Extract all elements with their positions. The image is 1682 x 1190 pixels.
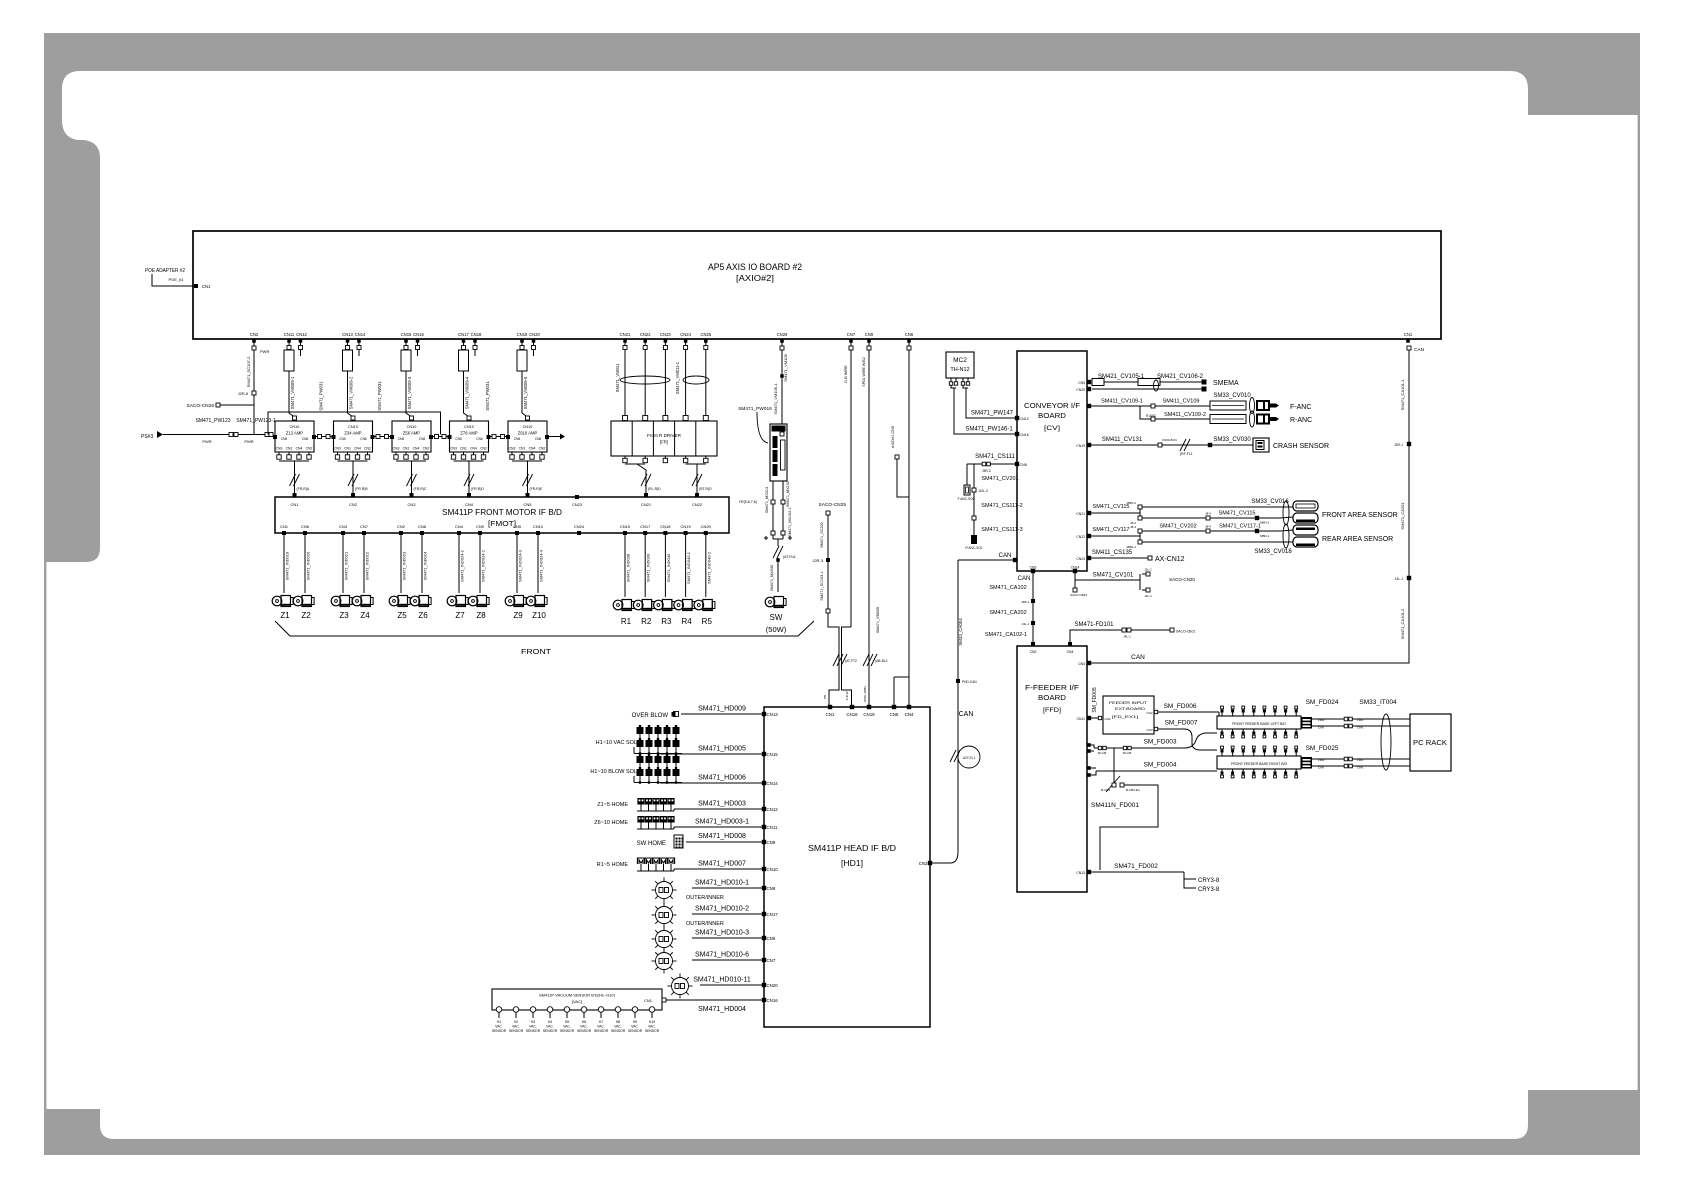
svg-text:CN17: CN17 [767, 912, 779, 917]
svg-text:Z2: Z2 [301, 611, 311, 620]
svg-text:CN4: CN4 [296, 447, 303, 451]
svg-text:BOARD: BOARD [1038, 413, 1066, 420]
svg-text:CN3: CN3 [407, 502, 416, 507]
wire SM471_CV101 chain from CV CN14 [1073, 569, 1077, 573]
svg-text:(FR-R)E: (FR-R)E [530, 487, 543, 491]
svg-text:(AT-FT2: (AT-FT2 [845, 659, 857, 663]
svg-text:SM471_IND024-1: SM471_IND024-1 [460, 549, 465, 582]
svg-text:Z6~10 HOME: Z6~10 HOME [594, 820, 628, 826]
svg-text:SM411_CV109: SM411_CV109 [1163, 399, 1200, 405]
svg-text:J2L-1: J2L-1 [1144, 594, 1152, 598]
svg-text:SM471_CA102-1: SM471_CA102-1 [985, 632, 1027, 638]
rear area sensor icons [1293, 525, 1318, 535]
svg-text:PS#3: PS#3 [141, 434, 153, 440]
svg-text:CN13: CN13 [1076, 871, 1085, 875]
svg-text:SM471_HD009: SM471_HD009 [698, 706, 746, 713]
svg-text:CN21: CN21 [641, 502, 652, 507]
svg-text:CN3: CN3 [1146, 728, 1152, 732]
svg-text:SM471_PW031: SM471_PW031 [319, 381, 324, 411]
svg-text:CN4: CN4 [465, 502, 474, 507]
svg-text:CN5: CN5 [523, 502, 532, 507]
svg-text:SM471_PW031: SM471_PW031 [377, 381, 382, 411]
svg-text:SM471_SC103-1: SM471_SC103-1 [820, 571, 824, 600]
svg-text:CN14: CN14 [355, 332, 366, 337]
svg-text:VAC.: VAC. [648, 1025, 656, 1029]
HD1 top connectors CN1 CN18 CN19 CN5 CN4 [828, 705, 832, 709]
svg-text:SM471_CV117-1: SM471_CV117-1 [1219, 524, 1261, 530]
svg-text:J2R-8: J2R-8 [238, 392, 248, 396]
svg-text:CN5: CN5 [398, 437, 405, 441]
svg-text:PB: PB [823, 695, 827, 699]
filter block on CN17 wire [459, 350, 469, 371]
svg-text:SM471_PW016: SM471_PW016 [738, 406, 772, 412]
wire SM471_CS111 from CV CN8 [1015, 462, 1019, 466]
svg-text:CN15: CN15 [620, 524, 631, 529]
wire pair down to HD1 CN1/CN18 [828, 613, 839, 707]
svg-text:MC2: MC2 [953, 357, 967, 364]
svg-text:CAN: CAN [959, 711, 974, 718]
svg-text:SM471_HD004: SM471_HD004 [698, 1006, 746, 1013]
svg-text:VAC.: VAC. [546, 1025, 554, 1029]
wire SM471_FD002 to CRY3-8 [1087, 870, 1091, 874]
svg-text:CN7: CN7 [360, 524, 369, 529]
svg-text:CN7: CN7 [847, 332, 856, 337]
wire SM471_PW147 to CV CN12 [963, 385, 968, 388]
svg-text:PWR: PWR [1318, 718, 1325, 722]
svg-text:[AXIO#2]: [AXIO#2] [736, 273, 774, 283]
svg-text:SM471_HD003: SM471_HD003 [698, 801, 746, 808]
svg-text:SW HOME: SW HOME [637, 841, 666, 847]
svg-text:SM471_VM011-1: SM471_VM011-1 [675, 361, 680, 394]
svg-text:SM471_VM009-3: SM471_VM009-3 [407, 376, 412, 409]
svg-text:PC RACK: PC RACK [1413, 740, 1447, 747]
svg-text:[HD1]: [HD1] [841, 859, 863, 868]
vacuum sensor board VAC / wire SM471_HD004 [762, 998, 766, 1002]
svg-text:J4L-1: J4L-1 [1021, 622, 1029, 626]
svg-text:SM471_HD003-1: SM471_HD003-1 [695, 819, 749, 826]
svg-text:H3: H3 [531, 1020, 535, 1024]
svg-text:CN13: CN13 [342, 332, 353, 337]
svg-text:SACO-CB01: SACO-CB01 [1176, 630, 1195, 634]
svg-text:CN6: CN6 [535, 437, 542, 441]
svg-text:CONVEYOR I/F: CONVEYOR I/F [1024, 403, 1080, 410]
svg-text:CAN: CAN [1318, 726, 1324, 730]
svg-text:SM471_HD005: SM471_HD005 [698, 746, 746, 753]
svg-text:SM471_IND023: SM471_IND023 [402, 551, 407, 580]
board CV (CONVEYOR I/F BOARD) [1017, 351, 1087, 571]
svg-text:CN1: CN1 [290, 502, 299, 507]
svg-text:SENSOR: SENSOR [628, 1029, 643, 1033]
svg-text:SACO-CB23: SACO-CB23 [1070, 593, 1087, 597]
svg-text:PHD-CAN: PHD-CAN [962, 680, 977, 684]
svg-text:Z1: Z1 [280, 611, 290, 620]
svg-text:J8-4: J8-4 [1205, 525, 1211, 529]
svg-text:CN9: CN9 [767, 840, 776, 845]
svg-text:Z3: Z3 [339, 611, 349, 620]
svg-text:(FR-R)B: (FR-R)B [355, 487, 368, 491]
svg-text:FRONT: FRONT [521, 647, 551, 656]
svg-text:CN20: CN20 [767, 983, 779, 988]
svg-text:J8-3: J8-3 [1205, 512, 1211, 516]
svg-text:SM471_IND020: SM471_IND020 [306, 551, 311, 580]
svg-text:SM411P HEAD IF B/D: SM411P HEAD IF B/D [808, 843, 896, 853]
svg-text:AXIO#1-CN5: AXIO#1-CN5 [891, 426, 895, 448]
svg-text:OUTER/INNER: OUTER/INNER [686, 921, 724, 927]
wire SM411_CS135 to AX-CN12 [1087, 556, 1091, 560]
svg-text:SM471_HD010-6: SM471_HD010-6 [695, 952, 749, 959]
power bus SM471_PW031 [268, 412, 441, 435]
svg-text:SM471_CV115: SM471_CV115 [1093, 504, 1130, 510]
sensor SW HOME / wire SM471_HD008 [762, 840, 766, 844]
svg-text:Z7: Z7 [455, 611, 465, 620]
svg-text:CN29: CN29 [777, 332, 788, 337]
svg-text:CN20: CN20 [701, 524, 712, 529]
svg-text:Z5: Z5 [397, 611, 407, 620]
svg-text:CN10: CN10 [348, 425, 358, 429]
svg-text:VAC.: VAC. [597, 1025, 605, 1029]
svg-text:CN16: CN16 [767, 998, 779, 1003]
svg-text:MBD-1: MBD-1 [1260, 534, 1270, 538]
svg-text:CN8: CN8 [767, 886, 776, 891]
svg-text:CN10: CN10 [533, 524, 544, 529]
svg-text:CRY3-8: CRY3-8 [1198, 878, 1220, 884]
cable bundle ellipses SM471_VM011 [620, 376, 670, 384]
svg-text:CAN: CAN [1414, 347, 1425, 353]
svg-text:CN3: CN3 [276, 447, 283, 451]
crash sensor wire SM411_CV131 / SM33_CV030 [1087, 443, 1091, 447]
svg-text:SM_FD004: SM_FD004 [1144, 762, 1177, 769]
svg-text:SM471_CA102: SM471_CA102 [989, 585, 1026, 591]
filter block on CN11 wire [284, 350, 294, 371]
lamp OUTER/INNER 1 / wire SM471_HD010-1 [762, 886, 766, 890]
motor Z6 with wire SM471_IND024 [421, 540, 423, 593]
motor Z4 with wire SM471_IND022 [363, 540, 365, 593]
svg-text:SM471_SC107-2: SM471_SC107-2 [246, 356, 251, 387]
svg-text:CN10: CN10 [767, 867, 779, 872]
svg-text:CN6#-8CN: CN6#-8CN [1162, 438, 1177, 442]
svg-text:H9: H9 [633, 1020, 637, 1024]
svg-text:CN19: CN19 [1076, 444, 1085, 448]
svg-text:SENSOR: SENSOR [594, 1029, 609, 1033]
svg-text:CN7: CN7 [767, 958, 776, 963]
svg-text:MBD-1: MBD-1 [1127, 545, 1137, 549]
wire from Z910 AMP to FMOT with shield hatch [527, 461, 529, 493]
svg-text:CN12: CN12 [1020, 417, 1029, 421]
svg-text:[FMOT]: [FMOT] [488, 519, 516, 528]
svg-text:SM471_HD006: SM471_HD006 [698, 775, 746, 782]
svg-text:H4: H4 [548, 1020, 552, 1024]
svg-text:CN2: CN2 [397, 524, 406, 529]
wire to SACO-CN26 [218, 404, 254, 406]
svg-text:[VAC]: [VAC] [572, 999, 582, 1004]
svg-text:SM411_CV131: SM411_CV131 [1102, 437, 1143, 443]
svg-text:(FR-R)C: (FR-R)C [414, 487, 427, 491]
svg-text:POE_#1: POE_#1 [168, 277, 184, 282]
svg-text:BOARD: BOARD [1038, 695, 1066, 702]
motor R1 with wire SM471_IND038 [624, 540, 626, 597]
svg-text:SENSOR: SENSOR [645, 1029, 660, 1033]
front feeder base right B/D [1217, 756, 1301, 769]
connector SM411N_FD001 loop [1113, 748, 1115, 783]
svg-text:A2Y-FL1: A2Y-FL1 [963, 756, 976, 760]
svg-text:J2R-1: J2R-1 [1394, 443, 1403, 447]
svg-text:VAC.: VAC. [580, 1025, 588, 1029]
svg-text:CN1: CN1 [344, 447, 351, 451]
svg-text:CN5: CN5 [513, 524, 522, 529]
front area sensor wires SM471_CV115 [1087, 511, 1091, 515]
svg-text:SENSOR: SENSOR [526, 1029, 541, 1033]
svg-text:CN2: CN2 [364, 447, 371, 451]
svg-text:SM471_HD010-1: SM471_HD010-1 [695, 880, 749, 887]
svg-text:CN6: CN6 [767, 936, 776, 941]
connector F ANC-SOL [966, 464, 968, 485]
svg-text:SM471_HD010-2: SM471_HD010-2 [695, 906, 749, 913]
svg-text:CN1: CN1 [403, 447, 410, 451]
svg-text:SM471_HD008: SM471_HD008 [698, 833, 746, 840]
wire from Z56 AMP to FMOT with shield hatch [411, 461, 413, 493]
svg-text:CN4: CN4 [354, 447, 361, 451]
svg-text:CN24: CN24 [680, 332, 691, 337]
board FFD (F-FEEDER I/F BOARD) [1017, 646, 1087, 892]
svg-text:(RT-R)D: (RT-R)D [699, 487, 712, 491]
svg-text:VAC.: VAC. [563, 1025, 571, 1029]
connector OVER BLOW / wire SM471_HD009 [762, 712, 766, 716]
svg-text:SM411_CS135: SM411_CS135 [1092, 550, 1133, 556]
svg-text:SM411N_FD001: SM411N_FD001 [1091, 802, 1139, 809]
svg-text:CN14: CN14 [767, 781, 779, 786]
front feeder base left B/D [1217, 716, 1301, 729]
svg-text:CN24: CN24 [574, 524, 585, 529]
crash sensor connector [1253, 438, 1269, 452]
svg-text:SM471_IND024-2: SM471_IND024-2 [481, 549, 486, 582]
motor Z8 with wire SM471_IND024-2 [479, 540, 481, 593]
wire SM471_VM009-3 [406, 371, 412, 419]
svg-text:CN6: CN6 [302, 437, 309, 441]
svg-text:SM471_SC202: SM471_SC202 [820, 522, 824, 548]
solenoid array H1~10 BLOW SOL / wire SM471_HD006 [762, 781, 766, 785]
filter block on CN19 wire [517, 350, 527, 371]
svg-text:R-ANC: R-ANC [1290, 417, 1312, 424]
amplifier Z34 AMP [351, 416, 355, 420]
anc cable SM411_CV109 to F-ANC [1087, 404, 1091, 408]
anc cable SM411_CV109-2 to R-ANC [1140, 406, 1210, 419]
motor R4 with wire SM471_IND040-1 [685, 540, 687, 597]
svg-text:CN10: CN10 [523, 425, 533, 429]
svg-text:CRASH SENSOR: CRASH SENSOR [1273, 443, 1329, 450]
svg-text:CN10: CN10 [407, 425, 417, 429]
svg-text:CN12: CN12 [296, 332, 307, 337]
wire SM471_VM106 [781, 350, 783, 424]
svg-text:SM471_IND024-3: SM471_IND024-3 [518, 549, 523, 582]
svg-text:SENSOR: SENSOR [492, 1029, 507, 1033]
svg-text:CAN: CAN [1318, 766, 1324, 770]
svg-text:CN3: CN3 [393, 447, 400, 451]
svg-text:CAN: CAN [999, 553, 1012, 559]
svg-text:Z6: Z6 [418, 611, 428, 620]
svg-text:CN1: CN1 [202, 284, 211, 289]
svg-text:SPDL W/B2: SPDL W/B2 [863, 686, 867, 702]
motor Z10 with wire SM471_IND024-4 [537, 540, 539, 593]
svg-text:B-CB3-EX: B-CB3-EX [1126, 788, 1140, 792]
svg-text:CN11: CN11 [767, 825, 778, 830]
svg-text:SM33_CA004: SM33_CA004 [958, 618, 963, 646]
svg-text:CN2: CN2 [349, 502, 358, 507]
lamp 5 / wire SM471_HD010-11 [762, 983, 766, 987]
svg-text:CN10: CN10 [290, 425, 300, 429]
svg-text:CAN: CAN [1018, 576, 1031, 582]
svg-text:CN6: CN6 [476, 437, 483, 441]
svg-text:CN5: CN5 [339, 437, 346, 441]
svg-text:R3: R3 [661, 617, 672, 626]
svg-text:SM_FD007: SM_FD007 [1165, 720, 1198, 727]
svg-text:CN2: CN2 [1030, 650, 1037, 654]
svg-text:SM471_CA101-1: SM471_CA101-1 [1400, 379, 1405, 410]
amplifier Z78 AMP [467, 416, 471, 420]
svg-text:H1: H1 [497, 1020, 501, 1024]
svg-text:D-B WIRE: D-B WIRE [844, 365, 848, 383]
svg-text:CN1: CN1 [286, 447, 293, 451]
svg-text:J5R-3: J5R-3 [982, 469, 991, 473]
svg-text:CN8: CN8 [418, 524, 427, 529]
svg-text:F-FEEDER I/F: F-FEEDER I/F [1025, 685, 1079, 692]
svg-text:(RF-FL1: (RF-FL1 [1180, 452, 1193, 456]
wire SM471-FD101 from FFD CN4 [1070, 630, 1170, 644]
svg-text:SENSOR: SENSOR [543, 1029, 558, 1033]
svg-text:SM421_CV106-2: SM421_CV106-2 [1157, 374, 1204, 380]
svg-text:CN1: CN1 [644, 998, 653, 1003]
motor Z3 with wire SM471_IND021 [342, 540, 344, 593]
amplifier Z12 AMP [293, 416, 297, 420]
svg-text:CN2: CN2 [306, 447, 313, 451]
svg-text:CN9: CN9 [1078, 381, 1085, 385]
svg-text:CN2: CN2 [1146, 711, 1152, 715]
svg-text:VAC.: VAC. [495, 1025, 503, 1029]
wire SM471_PW146-1 to CV CN16 [951, 385, 956, 388]
svg-text:SENSOR: SENSOR [560, 1029, 575, 1033]
svg-text:SM471_CV202: SM471_CV202 [1159, 524, 1196, 530]
svg-text:SM_FD006: SM_FD006 [1164, 703, 1197, 710]
svg-text:SM471_CA202: SM471_CA202 [989, 610, 1026, 616]
lamp OUTER/INNER 2 / wire SM471_HD010-2 [762, 912, 766, 916]
svg-text:SM471_IND039: SM471_IND039 [646, 553, 651, 582]
svg-text:J10L-3: J10L-3 [978, 489, 988, 493]
svg-text:CN6: CN6 [360, 437, 367, 441]
wire SM471_VM009-4 [464, 371, 470, 419]
svg-text:CAN: CAN [1131, 654, 1145, 661]
board HD1 (SM411P HEAD IF B/D) [764, 707, 930, 1027]
svg-text:CN18: CN18 [471, 332, 482, 337]
svg-text:D-B W: D-B W [845, 691, 849, 700]
wire SM_FD006 to front feeder base left B/D [1158, 711, 1219, 713]
sensor array Z6~10 HOME / wire SM471_HD003-1 [762, 825, 766, 829]
svg-text:SM471_VM009-4: SM471_VM009-4 [465, 376, 470, 409]
lamp 3 / wire SM471_HD010-3 [762, 936, 766, 940]
svg-text:FD-CB: FD-CB [1123, 751, 1132, 755]
svg-text:FD-CB: FD-CB [1098, 751, 1107, 755]
svg-text:CN19: CN19 [517, 332, 528, 337]
svg-text:SM471_CS111-2: SM471_CS111-2 [981, 503, 1022, 509]
wire into CV board CAN port [958, 559, 1015, 561]
svg-text:SMEMA: SMEMA [1213, 380, 1239, 387]
svg-text:SACO-CN20: SACO-CN20 [1169, 577, 1195, 582]
svg-text:FRONT AREA SENSOR: FRONT AREA SENSOR [1322, 512, 1398, 519]
svg-text:CN22: CN22 [692, 502, 703, 507]
motor Z1 with wire SM471_IND019 [283, 540, 285, 593]
svg-text:(RL-R)D: (RL-R)D [648, 487, 661, 491]
wire SM471_VM009-2 [348, 371, 354, 419]
svg-text:SM_FD024: SM_FD024 [1306, 699, 1339, 706]
PC RACK [1410, 714, 1451, 771]
svg-text:H2: H2 [514, 1020, 518, 1024]
svg-text:SM33_CV018: SM33_CV018 [1254, 549, 1292, 555]
svg-text:CN20: CN20 [1076, 388, 1085, 392]
svg-text:SM33_IT004: SM33_IT004 [1359, 699, 1397, 706]
driver output wires to FMOT [624, 456, 626, 459]
svg-text:SM471_CS111: SM471_CS111 [975, 454, 1015, 460]
svg-text:CN9: CN9 [476, 524, 485, 529]
svg-text:CN5: CN5 [514, 437, 521, 441]
svg-text:CN5: CN5 [455, 437, 462, 441]
motor Z5 with wire SM471_IND023 [400, 540, 402, 593]
svg-text:SENSOR: SENSOR [577, 1029, 592, 1033]
svg-text:CN16: CN16 [413, 332, 424, 337]
svg-text:H10: H10 [649, 1020, 655, 1024]
svg-text:SM471_CS111-3: SM471_CS111-3 [981, 527, 1022, 533]
cable bundle ellipse [1381, 714, 1391, 770]
svg-text:CN15: CN15 [401, 332, 412, 337]
svg-text:SM471_MX102: SM471_MX102 [786, 481, 790, 507]
svg-text:SM471_IND024-4: SM471_IND024-4 [539, 549, 544, 582]
svg-text:FEEDER INPUT: FEEDER INPUT [1109, 700, 1148, 705]
svg-text:CN1: CN1 [1404, 332, 1413, 337]
svg-text:SM471_MX013: SM471_MX013 [765, 487, 769, 513]
svg-text:SM471_MX102-1: SM471_MX102-1 [788, 507, 792, 537]
connector CN2 wire with node A2Y-FL1 [928, 861, 932, 865]
svg-text:SM471_CV201: SM471_CV201 [981, 476, 1018, 482]
svg-text:CN3: CN3 [334, 447, 341, 451]
svg-text:CN1: CN1 [1105, 717, 1111, 721]
svg-text:CN11: CN11 [284, 332, 295, 337]
filter block on CN13 wire [343, 350, 353, 371]
wires from PW016 to SW motor [772, 481, 774, 539]
svg-text:SM471_IND040-2: SM471_IND040-2 [706, 551, 711, 584]
svg-text:SM471-FD101: SM471-FD101 [1074, 622, 1114, 628]
svg-text:(AT-FL6: (AT-FL6 [783, 555, 795, 559]
svg-text:CN1: CN1 [280, 524, 289, 529]
svg-text:B-CB3: B-CB3 [1101, 788, 1110, 792]
svg-text:SM33_CV016: SM33_CV016 [1251, 499, 1289, 505]
svg-text:CAN: CAN [1357, 766, 1363, 770]
svg-text:FRONT FEEDER BASE RIGHT B/D: FRONT FEEDER BASE RIGHT B/D [1231, 762, 1288, 766]
svg-text:(FR-R)D: (FR-R)D [471, 487, 484, 491]
svg-text:CN17: CN17 [458, 332, 469, 337]
svg-text:H6: H6 [582, 1020, 586, 1024]
svg-text:CN15: CN15 [767, 752, 779, 757]
svg-text:SM33_CV010: SM33_CV010 [1213, 393, 1251, 399]
svg-text:H7: H7 [599, 1020, 603, 1024]
svg-text:SM471_IND022: SM471_IND022 [365, 551, 370, 580]
svg-text:REAR AREA SENSOR: REAR AREA SENSOR [1322, 536, 1393, 543]
svg-text:SACO-CN25: SACO-CN25 [819, 502, 847, 508]
svg-text:R4: R4 [681, 617, 692, 626]
svg-text:CN1: CN1 [460, 447, 467, 451]
svg-text:CN18: CN18 [660, 524, 671, 529]
rear area sensor wires SM471_CV117 [1087, 534, 1091, 538]
svg-text:SM471_HD010-11: SM471_HD010-11 [693, 977, 751, 984]
svg-text:SM471_CV101: SM471_CV101 [1093, 573, 1134, 579]
svg-text:CN2: CN2 [250, 332, 259, 337]
svg-text:CN21: CN21 [620, 332, 631, 337]
